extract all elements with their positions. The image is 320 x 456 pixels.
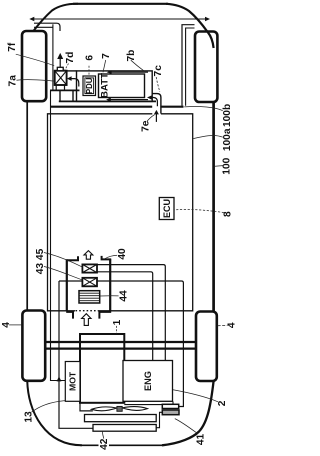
vehicle body outline left edge: [26, 45, 28, 380]
HVAC top-right flange: [101, 256, 112, 260]
front-right duct: [182, 25, 195, 106]
leader 7: [103, 60, 106, 72]
duct line L2 (front unit bottom): [59, 100, 156, 102]
heater pipe from 45 right to rear heater 41: [97, 281, 183, 407]
ECU box 8: [159, 198, 174, 220]
svg-text:41: 41: [196, 434, 207, 446]
svg-text:7: 7: [101, 53, 112, 59]
svg-text:7b: 7b: [126, 50, 137, 62]
front air discharge arrow (double-headed, at hood): [29, 17, 210, 21]
valve top notch fitting: [57, 67, 63, 70]
HVAC unit 40: left wall: [66, 259, 68, 311]
leader 44: [100, 295, 118, 297]
valve bottom stubs: [56, 85, 64, 90]
up arrow on left heater pipe: [57, 376, 62, 381]
HVAC bottom-right flange: [98, 312, 111, 319]
radiator bottom rect 42: [93, 425, 156, 432]
heat exchanger box 43 (with X): [82, 264, 97, 272]
long interior line from L1 down to MOT: [51, 90, 66, 380]
airflow arrow below BATT: [106, 98, 148, 102]
svg-text:7a: 7a: [7, 75, 18, 87]
svg-text:100b: 100b: [222, 104, 233, 127]
svg-text:44: 44: [118, 290, 129, 302]
svg-text:8: 8: [223, 211, 234, 217]
leader 6: [88, 66, 90, 76]
svg-text:1: 1: [112, 319, 123, 325]
leader 45: [44, 253, 82, 267]
svg-text:6: 6: [85, 55, 96, 61]
leader 100: [215, 165, 223, 168]
svg-text:7c: 7c: [153, 65, 164, 77]
svg-text:4: 4: [226, 322, 237, 328]
leader 8: [174, 209, 224, 212]
airflow arrow above BATT: [107, 70, 148, 74]
vehicle body front-right corner: [166, 4, 214, 48]
svg-text:7f: 7f: [7, 42, 18, 52]
svg-text:ENG: ENG: [143, 371, 153, 391]
outer box top edge extension to valve: [67, 70, 77, 72]
vehicle body front edge: [73, 3, 168, 5]
hook pipe arrow into valve right side: [67, 76, 79, 86]
heater unit 41 top box: [162, 404, 178, 408]
wheel rear-right: [196, 312, 217, 382]
vehicle body rear-right corner: [162, 381, 214, 445]
duct line L1 (valve bay top): [50, 89, 80, 91]
radiator middle rect: [85, 415, 157, 422]
leader 7b: [131, 60, 145, 71]
HVAC outlet outline arrow (top): [84, 251, 93, 260]
valve 7d box with X: [55, 71, 67, 85]
up arrow 7e through divider: [154, 110, 159, 122]
svg-text:43 45: 43 45: [35, 248, 46, 274]
wire duct line from front-left duct down to valve region: [52, 24, 54, 90]
svg-text:100a: 100a: [222, 128, 233, 151]
svg-text:7d: 7d: [65, 52, 76, 64]
heater unit 41 bottom box: [162, 410, 179, 415]
leader 7c: [156, 77, 160, 92]
coolant pipe 1 from heat exchanger 43 to ENG: [97, 265, 165, 361]
svg-text:4: 4: [1, 322, 12, 328]
rear axle shafts: [45, 342, 196, 349]
connector ENG to 41: [172, 401, 174, 404]
svg-text:BATT: BATT: [100, 73, 111, 98]
svg-text:13: 13: [23, 411, 34, 423]
svg-text:7e: 7e: [140, 120, 151, 132]
wheel front-left: [22, 31, 46, 101]
passenger compartment box 100a: [48, 114, 193, 311]
PDU box U6: [83, 76, 96, 96]
svg-text:40: 40: [117, 248, 128, 260]
pipe 7c from front unit to cabin: [152, 94, 161, 114]
front unit outer box: [77, 71, 153, 102]
BATT box 7: [99, 73, 145, 98]
svg-text:MOT: MOT: [68, 371, 78, 391]
svg-text:2: 2: [217, 400, 228, 406]
svg-text:100: 100: [222, 157, 233, 174]
leader 4 left: [9, 324, 22, 326]
vehicle body front-left corner: [27, 4, 78, 46]
svg-text:PDU: PDU: [85, 77, 94, 94]
svg-text:ECU: ECU: [162, 199, 172, 218]
front-left duct: [34, 23, 60, 31]
HVAC top-left flange: [66, 256, 79, 260]
svg-text:42: 42: [99, 438, 110, 450]
dash/compartment divider line 100b: [50, 106, 183, 108]
wheel front-right: [195, 32, 217, 103]
leader 40: [105, 255, 118, 259]
HVAC intake dotted line: [76, 310, 99, 312]
coolant pipe 2 from heat exchanger 43 to ENG: [97, 272, 153, 361]
leader 43: [44, 267, 82, 280]
leader 7d: [65, 64, 69, 71]
HVAC right wall: [109, 259, 111, 311]
heater core 44 (hatched box): [79, 291, 100, 303]
vehicle body rear edge: [80, 444, 162, 446]
ENG box 2: [123, 361, 173, 402]
leader 1: [116, 326, 118, 334]
rear power unit box: [80, 334, 124, 403]
leader 7a: [17, 80, 55, 81]
leader 13: [32, 401, 65, 413]
hook arrow into front unit (return): [147, 95, 157, 106]
duct elbow walls: [60, 91, 73, 102]
leader 41: [175, 419, 198, 434]
connector 41 to radiator: [156, 412, 162, 427]
leader 7f: [16, 54, 54, 66]
heater pipe from 45 left down to radiator: [59, 281, 93, 428]
leader 7e: [147, 115, 155, 122]
leader 100a: [193, 135, 223, 138]
HVAC intake outline arrow (bottom): [82, 314, 91, 326]
exhaust up arrow above valve (7f): [57, 53, 63, 67]
wheel rear-left: [22, 311, 45, 381]
leader 2: [173, 390, 218, 402]
heat exchanger box 45 (with X): [82, 278, 97, 287]
vehicle body right edge: [212, 47, 215, 381]
cooling fan 42: [80, 403, 162, 411]
HVAC bottom-left flange: [66, 312, 74, 319]
leader 42: [102, 431, 104, 438]
leader 100b: [184, 107, 222, 111]
vehicle body rear-left corner: [27, 378, 82, 445]
leader 4 right: [218, 324, 228, 326]
MOT box 13: [65, 362, 80, 402]
